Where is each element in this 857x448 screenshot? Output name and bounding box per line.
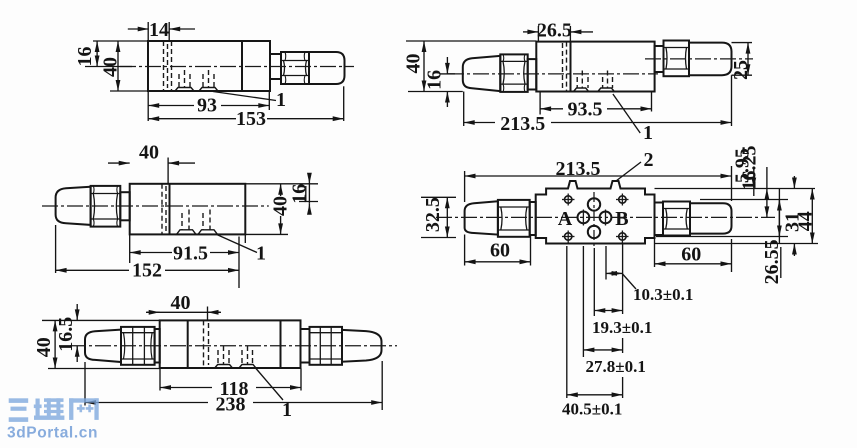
V5 dim 118 <box>160 387 301 389</box>
V4 right knob <box>690 203 732 233</box>
V4 leader 10.3 <box>623 274 636 289</box>
V2 hidden port lines group2 <box>602 77 604 88</box>
V1 dim 40 <box>117 41 119 91</box>
V4 right extension hole rows <box>700 199 788 201</box>
svg-text:16: 16 <box>74 47 96 67</box>
V1 leader 1 <box>213 92 276 101</box>
V3 hidden port lines group1 <box>181 213 183 230</box>
svg-text:A: A <box>558 208 573 230</box>
svg-text:3dPortal.cn: 3dPortal.cn <box>7 425 98 442</box>
V2 dim 25 <box>747 43 749 76</box>
V2 left hex <box>500 54 527 92</box>
V4 left knob <box>465 201 498 234</box>
V2 port bump 1 <box>574 88 589 92</box>
svg-text:40: 40 <box>171 292 191 314</box>
V5 body <box>160 320 301 368</box>
V1 body <box>148 41 270 91</box>
svg-text:10.3±0.1: 10.3±0.1 <box>633 285 693 304</box>
svg-text:60: 60 <box>681 244 701 266</box>
V2 hidden stem lines <box>562 43 564 90</box>
svg-text:40: 40 <box>33 337 55 357</box>
V1 hidden lines vertical cluster <box>163 41 165 91</box>
svg-text:213.5: 213.5 <box>500 113 545 135</box>
V4 right extension bottom <box>655 243 819 245</box>
V5 dim 40 left <box>54 320 56 368</box>
V1 hex nut <box>281 52 309 84</box>
V3 dim 152 <box>56 269 239 271</box>
V5 right washer <box>301 329 310 363</box>
V4 dim 26.55 underline <box>780 247 782 278</box>
V1 dim 14 <box>128 28 149 30</box>
V4 port A vertical tick <box>582 210 584 226</box>
svg-text:91.5: 91.5 <box>173 243 208 265</box>
svg-text:32.5: 32.5 <box>422 197 444 232</box>
svg-text:16: 16 <box>288 184 310 204</box>
V4 dim 27.8 <box>583 349 622 351</box>
svg-text:40: 40 <box>139 142 159 164</box>
V5 port bump 1 <box>215 365 233 369</box>
svg-text:14: 14 <box>149 19 169 41</box>
V2 dim 213.5 <box>464 122 732 124</box>
V5 hidden port lines group1 <box>217 350 219 364</box>
svg-text:93: 93 <box>197 95 217 117</box>
svg-text:16: 16 <box>424 70 446 90</box>
svg-text:44: 44 <box>794 211 816 231</box>
V5 hidden port lines group2 <box>241 350 243 364</box>
svg-text:40: 40 <box>403 54 425 74</box>
V1 body step line <box>241 41 243 91</box>
V4 port B <box>600 212 612 224</box>
watermark char wei <box>36 399 40 416</box>
V3 port bump 1 <box>177 230 197 235</box>
V1 dim 16 <box>96 41 98 67</box>
watermark char san <box>9 398 29 403</box>
V5 right knob <box>342 330 382 362</box>
svg-text:1: 1 <box>282 399 292 421</box>
V1 dim 93 <box>148 105 269 107</box>
svg-text:16.5: 16.5 <box>55 317 77 352</box>
V2 hidden port lines group1 <box>576 77 578 88</box>
V4 chain extension port center <box>593 248 595 316</box>
V4 bolt hole top-right <box>619 196 626 203</box>
V2 right hex <box>664 41 690 77</box>
V4 chain extension port A <box>582 246 584 357</box>
V3 dim 91.5 <box>130 252 239 254</box>
svg-text:1: 1 <box>276 89 286 111</box>
svg-text:152: 152 <box>132 260 162 282</box>
V4 chain datum line <box>622 244 624 315</box>
V2 right knob <box>689 43 732 76</box>
V5 dim 16.5 <box>76 304 78 320</box>
V1 texts <box>74 19 286 130</box>
V4 left hex <box>498 200 530 237</box>
V3 dim 40 top <box>108 162 130 164</box>
V2 leader 1 <box>613 94 640 133</box>
V4 port P <box>588 198 600 210</box>
V4 dim 5.95 <box>753 167 755 189</box>
V4 dim 60 left <box>465 261 531 263</box>
V1 hidden port lines group1 <box>178 74 180 87</box>
V5 port bump 2 <box>239 365 256 369</box>
V5 right hex <box>310 327 343 365</box>
V4 chain extension port B <box>605 246 607 280</box>
V2 centerline left <box>448 73 658 75</box>
V3 hidden stem lines <box>161 184 163 235</box>
V3 port bump 2 <box>198 230 218 235</box>
V4 port A <box>578 212 590 224</box>
V4 bolt hole bottom-right <box>619 233 626 240</box>
svg-text:153: 153 <box>236 108 266 130</box>
V2 left knob <box>463 56 501 91</box>
V4 dim 32.5 <box>446 197 448 237</box>
V4 dim 31 <box>778 189 780 244</box>
V1 centerline <box>120 66 354 68</box>
V4 port B vertical tick <box>605 210 607 226</box>
svg-text:B: B <box>615 208 628 230</box>
V5 dim 238 <box>85 402 382 404</box>
V1 port bump 1 <box>175 88 194 92</box>
V2 port bump 2 <box>598 88 615 92</box>
svg-text:26.55: 26.55 <box>761 239 783 284</box>
V3 texts <box>129 142 310 282</box>
V4 right extension top <box>655 188 816 190</box>
svg-text:213.5: 213.5 <box>556 158 601 180</box>
svg-text:16.25: 16.25 <box>739 146 761 191</box>
V5 section line right <box>280 320 282 368</box>
V1 port bump 2 <box>199 88 218 92</box>
svg-text:2: 2 <box>644 149 654 171</box>
V4 port T <box>588 226 600 238</box>
V3 body <box>130 184 246 235</box>
V2 body <box>536 42 654 92</box>
V4 texts <box>422 146 816 419</box>
V2 left washer <box>528 59 537 89</box>
V5 dim 40 top <box>146 311 221 313</box>
V3 hex <box>91 186 121 227</box>
svg-text:40: 40 <box>99 57 121 77</box>
V5 leader 1 <box>256 369 283 401</box>
V1 hidden port lines group2 <box>202 74 204 87</box>
V2 centerline right <box>645 58 753 60</box>
V4 right washer <box>655 203 664 236</box>
V4 dim 16.25 <box>766 167 768 189</box>
V5 texts <box>33 292 292 421</box>
svg-text:25: 25 <box>730 60 752 80</box>
V2 dim 40 <box>423 41 425 92</box>
V1 dim 153 <box>148 118 344 120</box>
V1 shaft <box>270 54 281 79</box>
V4 bolt hole top-left <box>565 196 572 203</box>
V4 bolt hole cross ticks <box>562 199 575 201</box>
svg-text:40.5±0.1: 40.5±0.1 <box>562 400 622 419</box>
V4 dim 44 outside arrows <box>793 176 795 189</box>
V4 dim 44 line <box>811 189 813 244</box>
V5 left hex <box>121 327 155 365</box>
V2 internal stem line <box>570 42 572 92</box>
svg-text:1: 1 <box>256 243 266 265</box>
V5 section line left <box>187 320 189 368</box>
V3 knob <box>56 187 91 225</box>
V4 right hex <box>663 202 690 236</box>
V5 hidden stem lines <box>203 320 205 368</box>
V4 dim 40.5 <box>567 394 623 396</box>
V5 left knob <box>85 330 121 362</box>
V3 dim 16 right <box>308 177 310 184</box>
V4 dim 10.3 <box>606 272 623 274</box>
V4 chain extension small holes <box>566 246 568 398</box>
V2 right shaft <box>655 46 664 72</box>
V3 leader 1 <box>217 235 257 253</box>
svg-text:1: 1 <box>643 122 653 144</box>
V5 centerline <box>70 345 397 347</box>
V1 knob <box>309 52 345 84</box>
V2 dim 93.5 <box>540 108 651 110</box>
V2 texts <box>403 20 753 145</box>
V3 hidden port lines group2 <box>202 213 204 230</box>
svg-text:26.5: 26.5 <box>537 20 572 42</box>
V4 bolt hole bottom-left <box>565 233 572 240</box>
V4 left washer <box>530 202 536 235</box>
V3 dim 40 right <box>280 184 282 196</box>
V4 dim 19.3 <box>594 310 622 312</box>
watermark char wang <box>69 398 99 402</box>
svg-text:27.8±0.1: 27.8±0.1 <box>586 357 646 376</box>
svg-text:60: 60 <box>490 239 510 261</box>
V5 left washer <box>155 329 160 363</box>
V4 mounting face outline <box>536 181 655 244</box>
V4 dim 213.5 <box>465 175 732 177</box>
V3 centerline <box>42 205 269 207</box>
svg-text:238: 238 <box>216 394 246 416</box>
V4 dim 60 right <box>655 263 732 265</box>
V4 centerline horizontal <box>436 216 775 218</box>
V2 dim 26.5 <box>523 31 538 33</box>
V2 dim 16 <box>446 57 448 74</box>
svg-text:93.5: 93.5 <box>568 99 603 121</box>
V3 internal stem line <box>169 184 171 235</box>
V3 washer <box>120 192 129 220</box>
V4 port vertical centerline <box>593 192 595 246</box>
V4 leader 2 <box>616 162 641 181</box>
svg-text:19.3±0.1: 19.3±0.1 <box>592 318 652 337</box>
